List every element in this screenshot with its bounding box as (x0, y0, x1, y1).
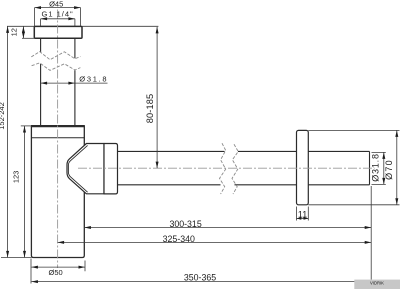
center line horizontal (78, 167, 375, 169)
dim 12 line (22, 26, 24, 38)
arrow 350-365 right (365, 280, 372, 283)
dim 152-242 line (7, 26, 9, 257)
arrow G left (41, 17, 48, 20)
trap body (31, 126, 84, 258)
arrow 152-242 down (6, 251, 9, 258)
dim 325-340 line (58, 241, 372, 243)
svg-text:123: 123 (12, 171, 21, 184)
svg-text:300-315: 300-315 (169, 219, 201, 229)
svg-text:Ø50: Ø50 (49, 268, 63, 277)
dim Ø45 ext right (80, 8, 82, 27)
arrow 11 right (304, 217, 309, 219)
arrow Ø70 down (395, 198, 398, 205)
dim Ø50 line (31, 266, 85, 268)
arrow 325-340 left (58, 241, 65, 244)
elbow inner double line (68, 145, 87, 192)
dim 350-365 line (31, 281, 371, 283)
arrow 123 up (23, 126, 26, 133)
nut (104, 144, 118, 194)
svg-text:VIDRIK: VIDRIK (370, 281, 384, 286)
dim Ø45 line (35, 7, 81, 9)
dim Ø31.8 top line (41, 82, 108, 84)
arrow Ø50 left (31, 266, 38, 269)
dim Ø31.8 right line (383, 152, 385, 184)
svg-text:152-242: 152-242 (0, 102, 6, 130)
dim Ø45 ext left (34, 8, 36, 27)
dim G1 1/4 ext (41, 19, 75, 26)
arrow Ø45 left (35, 6, 42, 9)
center line vertical (57, 10, 59, 269)
dim G1 1/4 line (41, 18, 75, 20)
dim 300-315 line (84, 227, 371, 229)
cap (tailpiece top flange) (34, 26, 82, 38)
vertical pipe left wall (40, 38, 42, 126)
arrow 123 down (23, 251, 26, 258)
elbow (67, 144, 104, 194)
pipe end cap (369, 151, 371, 184)
horizontal pipe top wall (118, 150, 370, 152)
arrow 12 down (22, 32, 25, 39)
arrow Ø31.8 top right (68, 82, 75, 85)
dim Ø70 line (396, 130, 398, 204)
dim 350-365 ext left (30, 259, 32, 284)
svg-text:12: 12 (10, 28, 19, 36)
dim 123 line (24, 126, 26, 257)
svg-text:350-365: 350-365 (184, 272, 216, 282)
arrow 325-340 right (365, 241, 372, 244)
break zigzag horizontal pipe left (220, 143, 226, 194)
body top edge thick (31, 125, 85, 127)
svg-text:325-340: 325-340 (163, 234, 195, 244)
arrow 11 left (297, 217, 302, 219)
break zigzag horizontal pipe right (232, 144, 238, 194)
svg-text:80-185: 80-185 (145, 94, 155, 124)
dim 123 ext (21, 125, 32, 127)
dim 11 line (297, 218, 309, 220)
arrow G right (68, 17, 75, 20)
dim Ø31.8 right ext lines (372, 152, 386, 184)
arrow 12 up (22, 26, 25, 33)
horizontal pipe bottom wall (118, 184, 370, 186)
arrow 300-315 right (365, 226, 372, 229)
vertical pipe right wall (74, 38, 76, 126)
arrow Ø31.8 right down (382, 178, 385, 185)
arrow Ø50 right (79, 266, 86, 269)
svg-text:Ø45: Ø45 (49, 0, 63, 8)
svg-text:Ø31.8: Ø31.8 (79, 75, 108, 84)
wall reference ext line (370, 186, 372, 280)
cap top plane ext line (7, 25, 158, 27)
cap bottom ext left (22, 37, 34, 39)
arrow 300-315 left (84, 226, 91, 229)
arrow 80-185 down (156, 162, 159, 169)
arrow 80-185 up (156, 27, 159, 34)
watermark box (354, 280, 400, 289)
svg-text:Ø31.8: Ø31.8 (371, 153, 381, 182)
dim 11 ext lines (297, 207, 309, 221)
svg-text:11: 11 (298, 210, 307, 220)
arrow Ø31.8 right up (382, 152, 385, 159)
dim 80-185 line (156, 27, 158, 168)
arrow Ø70 up (395, 130, 398, 137)
arrow Ø45 right (74, 6, 81, 9)
dim Ø50 ext right (84, 261, 86, 272)
svg-text:G1 1/4": G1 1/4" (42, 10, 74, 19)
break zigzag vertical pipe lower (32, 63, 81, 71)
arrow 350-365 left (31, 280, 38, 283)
svg-text:Ø70: Ø70 (384, 159, 394, 180)
bottom plane ext line (1, 257, 31, 259)
break zigzag vertical pipe upper (31, 52, 80, 60)
wall flange escutcheon (297, 130, 309, 204)
dim Ø70 ext lines (308, 130, 399, 204)
arrow 152-242 up (6, 26, 9, 33)
body flange line (31, 137, 84, 139)
arrow Ø31.8 top left (41, 82, 48, 85)
